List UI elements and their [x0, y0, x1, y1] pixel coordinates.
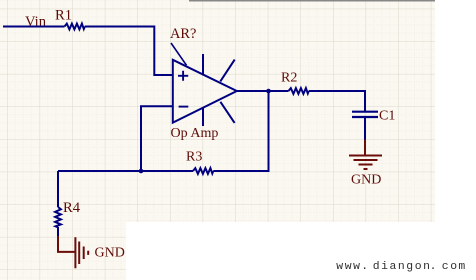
ground GND left bars	[75, 237, 88, 268]
wire op-amp output	[237, 90, 289, 92]
svg-text:Vin: Vin	[25, 14, 47, 30]
resistor R4	[55, 207, 61, 227]
svg-text:AR?: AR?	[170, 26, 196, 42]
resistor R2	[289, 88, 309, 94]
wire R2 to C1	[309, 91, 365, 111]
svg-text:R1: R1	[55, 7, 72, 23]
junction output node	[266, 89, 271, 94]
op-amp U1 bottom vertical pin stub	[202, 107, 204, 126]
wire Vin input segment	[3, 26, 65, 28]
ground GND right lead	[364, 140, 366, 156]
op-amp U1 triangle body	[173, 60, 237, 123]
wire from R1 to op-amp + input	[85, 27, 173, 76]
ground GND right bars	[349, 156, 382, 170]
junction feedback node	[139, 169, 144, 174]
op-amp U1 plus input symbol	[178, 71, 188, 81]
svg-text:R3: R3	[186, 150, 202, 165]
op-amp U1 bottom diagonal pin stub	[220, 102, 234, 123]
op-amp U1 leader line	[171, 43, 187, 65]
op-amp U1 top diagonal pin stub	[220, 60, 234, 82]
svg-text:GND: GND	[351, 173, 381, 188]
resistor R3	[193, 168, 213, 174]
resistor R1	[65, 24, 85, 30]
svg-text:C1: C1	[379, 108, 395, 123]
svg-text:GND: GND	[95, 246, 125, 261]
op-amp U1 top vertical pin stub	[202, 54, 204, 76]
capacitor C1	[352, 112, 378, 117]
svg-text:R4: R4	[63, 200, 81, 216]
svg-text:www.diangon.com: www.diangon.com	[336, 261, 465, 273]
svg-text:Op Amp: Op Amp	[171, 126, 219, 141]
ground GND left lead	[58, 236, 75, 252]
wire op-amp minus input to feedback	[141, 106, 173, 171]
op-amp U1 minus input symbol	[179, 106, 189, 108]
wire R3 right segment up to output node	[213, 91, 268, 171]
wire C1 to ground	[364, 118, 366, 141]
wire R3 node down to R4	[57, 171, 59, 207]
wire R4 to ground	[57, 227, 59, 237]
wire R3 left segment	[58, 170, 193, 172]
svg-text:R2: R2	[281, 71, 297, 86]
